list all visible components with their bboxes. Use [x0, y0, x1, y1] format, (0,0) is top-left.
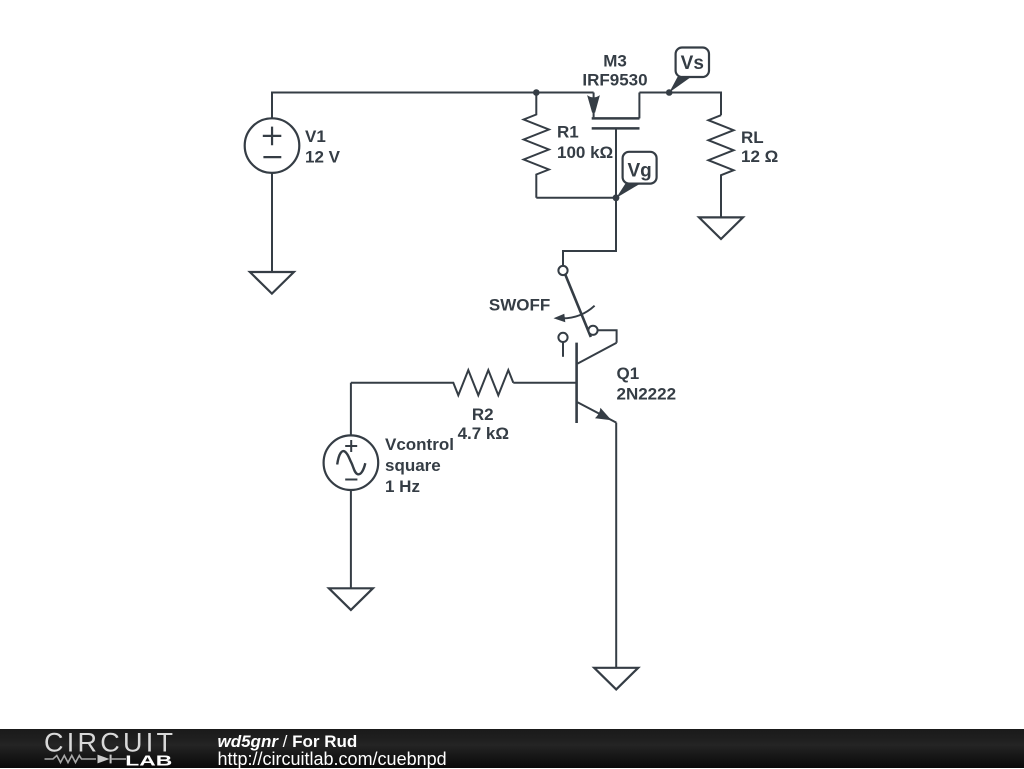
- svg-text:Vg: Vg: [627, 161, 651, 182]
- ground below Q1: [594, 668, 638, 690]
- svg-text:LAB: LAB: [125, 753, 172, 769]
- svg-text:Q1: Q1: [617, 364, 640, 383]
- svg-text:Vcontrol: Vcontrol: [385, 435, 454, 454]
- svg-text:RL: RL: [741, 128, 764, 147]
- wire Vcontrol top: [350, 383, 352, 436]
- resistor RL: [708, 115, 733, 217]
- svg-text:square: square: [385, 456, 441, 475]
- svg-text:V1: V1: [305, 127, 326, 146]
- label RL value: [741, 128, 778, 166]
- voltage source V1: [245, 118, 300, 173]
- wire R1 bottom to Vg node: [536, 197, 616, 199]
- node Vs junction dot: [666, 89, 673, 96]
- wire V1 to ground: [271, 173, 273, 272]
- voltage source Vcontrol: [324, 435, 379, 490]
- wire Q1 emitter to ground: [615, 423, 617, 668]
- svg-text:IRF9530: IRF9530: [582, 71, 647, 90]
- label Vcontrol value: [385, 435, 454, 496]
- ground below Vcontrol: [329, 588, 373, 610]
- label R1 value: [557, 122, 613, 162]
- svg-text:2N2222: 2N2222: [617, 385, 677, 404]
- label Q1 value: [617, 364, 677, 404]
- node junction dot at R1 top: [533, 89, 540, 96]
- svg-text:M3: M3: [603, 52, 627, 71]
- flag Vg: [616, 152, 657, 198]
- footer bar: [0, 729, 1024, 768]
- transistor M3 PMOS IRF9530: [587, 93, 639, 198]
- wire Q1 base to R2: [513, 382, 575, 384]
- node Vg junction dot: [613, 194, 620, 201]
- svg-text:R1: R1: [557, 122, 579, 141]
- svg-text:12 V: 12 V: [305, 148, 341, 167]
- svg-text:1 Hz: 1 Hz: [385, 477, 420, 496]
- svg-text:4.7 kΩ: 4.7 kΩ: [458, 424, 509, 443]
- label M3 value: [582, 52, 647, 90]
- svg-text:12 Ω: 12 Ω: [741, 147, 778, 166]
- flag Vs: [669, 48, 709, 93]
- resistor R1: [524, 93, 549, 198]
- ground below V1: [250, 272, 294, 294]
- switch SWOFF: [554, 266, 598, 357]
- resistor R2: [351, 370, 513, 395]
- wire Vg node to switch pole: [563, 198, 616, 266]
- svg-text:R2: R2: [472, 405, 494, 424]
- label R2 value: [458, 405, 509, 443]
- transistor Q1 NPN 2N2222: [577, 343, 617, 423]
- svg-text:Vs: Vs: [681, 53, 704, 74]
- svg-text:SWOFF: SWOFF: [489, 295, 550, 314]
- label V1 value: [305, 127, 341, 166]
- wire switch throw to Q1 collector: [598, 330, 617, 343]
- wire M3 drain to RL top: [639, 93, 721, 116]
- wire top net V1 to M3 source: [272, 93, 594, 119]
- ground below RL: [699, 217, 743, 239]
- svg-text:100 kΩ: 100 kΩ: [557, 143, 613, 162]
- wire Vcontrol to ground: [350, 490, 352, 588]
